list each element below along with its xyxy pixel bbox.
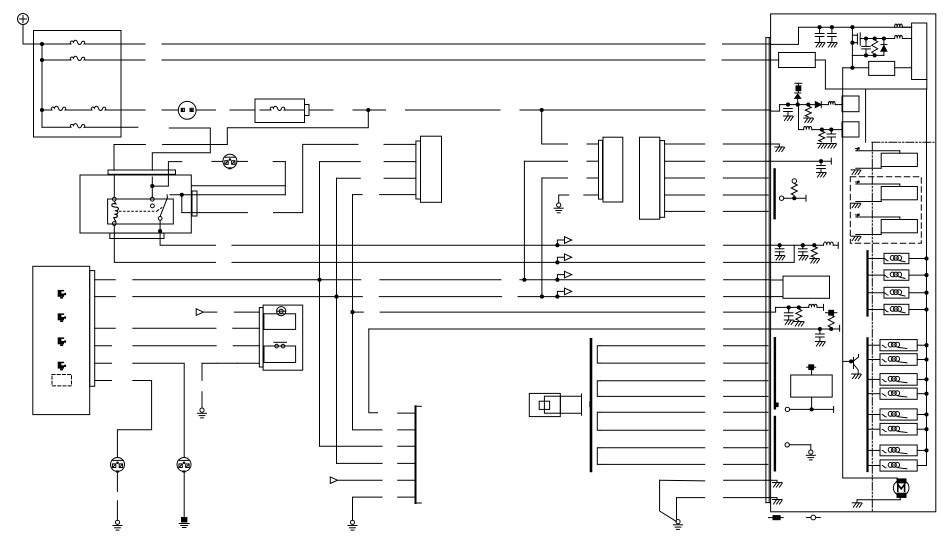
wire bus1 entry <box>771 244 780 246</box>
component M1 switch <box>275 344 279 348</box>
resistor R5 coil <box>828 101 835 104</box>
wire main rail elbow <box>843 67 853 69</box>
resistor R6 coil <box>799 129 804 131</box>
ground Gq <box>809 450 813 454</box>
relay coil L1 <box>112 201 119 222</box>
wire line3 in box <box>106 109 121 111</box>
ground C4 <box>784 115 793 117</box>
wire U3 bottom link <box>926 80 928 90</box>
comb stub 5 <box>398 479 416 481</box>
wire C1-2 in <box>384 161 416 163</box>
wire C2-1 link <box>542 110 568 144</box>
connector C1 pin bar <box>416 141 421 199</box>
wire sg2 drop <box>676 498 678 519</box>
solenoid S2 <box>869 274 884 276</box>
busD wire <box>133 345 216 347</box>
vref row <box>780 104 816 106</box>
arrow ref comb5 <box>330 477 337 484</box>
ground G2 <box>350 520 354 524</box>
node S2 <box>924 273 928 277</box>
resistor R11 coil <box>809 304 817 307</box>
wire C3-1 out <box>665 143 705 145</box>
node u8 <box>810 407 814 411</box>
wire w2 to ECU <box>724 362 768 364</box>
wire motor gnd <box>899 497 901 499</box>
wire line3 <box>121 109 145 111</box>
ground Q2 <box>852 373 861 375</box>
connector C2 body <box>603 137 623 202</box>
wire C2-2 left <box>524 160 567 162</box>
bus4 wire cont <box>379 296 501 298</box>
wire C2-4 in <box>584 194 599 196</box>
node rc2a <box>787 305 791 309</box>
node d7 <box>850 66 854 70</box>
busF stub <box>95 380 112 382</box>
bus4 wire <box>133 296 362 298</box>
relay inner body <box>108 199 174 224</box>
node v524/bus3 <box>522 278 526 282</box>
wire riser v352 <box>352 195 354 430</box>
wire C3-5 out b <box>723 210 768 212</box>
resistor R3 coil <box>895 35 903 38</box>
node relay out junction <box>180 193 184 197</box>
resistor R8 <box>811 247 817 258</box>
comb stub 1 <box>398 412 416 414</box>
connector C3 body <box>640 137 660 219</box>
wire line2 (B+) <box>121 59 145 61</box>
capacitor C5 <box>827 133 836 135</box>
pot resistor <box>791 184 797 196</box>
component M1 lower element <box>264 346 296 363</box>
resistor R12 <box>828 315 834 327</box>
ground Gs1 <box>773 482 782 484</box>
solenoid S3 <box>869 292 884 294</box>
bus5 left wire <box>234 311 259 313</box>
cpu block U6 <box>842 122 859 137</box>
wire motor feed <box>843 477 898 479</box>
solenoid T7 <box>869 449 880 451</box>
cpu block U5 <box>842 96 859 112</box>
node v352/bus5 <box>350 310 354 314</box>
component M2 case <box>529 393 560 416</box>
ground C1 <box>815 42 824 44</box>
ground G1 <box>200 408 204 412</box>
indicator bulb L1 <box>58 290 64 297</box>
cluster connector bar <box>90 271 95 387</box>
wire riser v541 <box>541 178 543 297</box>
bus6 left wire <box>133 327 216 329</box>
solenoid T2 <box>869 359 880 361</box>
connector C2 pin bar <box>599 140 603 199</box>
solenoid T8 <box>869 465 880 467</box>
u8 lower row <box>785 407 789 411</box>
solenoid left bar A <box>866 251 868 315</box>
wire line3 to ECU <box>722 109 771 111</box>
node S4 <box>924 307 928 311</box>
wire relay-line3 link <box>163 110 369 145</box>
bus4 stub <box>95 296 116 298</box>
wire w5 to ECU <box>724 411 768 413</box>
wire line3 seg4 <box>230 109 255 111</box>
relay outer case <box>80 175 191 233</box>
cluster dashed module <box>52 375 72 386</box>
bus1 to ECU <box>724 244 771 246</box>
wire line4 exit <box>121 126 138 128</box>
bus5 to ECU <box>724 311 771 313</box>
wire pair bracket 3 <box>597 412 600 430</box>
wire w2 <box>600 362 705 364</box>
solenoid T6 <box>869 428 880 430</box>
node T6 <box>924 427 928 431</box>
ignition module U4 <box>779 53 816 68</box>
wire sg2 <box>677 497 705 499</box>
wire w5 <box>600 411 705 413</box>
wire bus2 entry <box>771 245 795 262</box>
wire bus5 entry <box>771 307 776 312</box>
power node sq <box>796 86 801 91</box>
node d5 <box>864 53 868 57</box>
wire shield gnd entry <box>768 144 779 147</box>
node relay switch lower <box>158 229 162 233</box>
wire w6 to ECU <box>724 429 768 431</box>
node T1 <box>924 343 928 347</box>
ground R4 <box>804 117 813 119</box>
relay bottom connector bar <box>110 233 164 238</box>
wire line3 seg5 <box>309 109 333 111</box>
diode D1 <box>883 39 885 45</box>
node d4 <box>850 41 854 45</box>
wire C3-3 out b <box>723 177 768 179</box>
node line1 feed <box>40 42 44 46</box>
node bus2 arrow <box>555 260 559 264</box>
busE comp wire <box>237 362 259 364</box>
node relay coil feed <box>150 184 154 188</box>
wire C1-4 in <box>380 194 416 196</box>
resistor R2 coil <box>895 24 903 27</box>
wire line1 (B+) <box>121 43 145 45</box>
comb connector spine <box>415 406 417 503</box>
wire rail y89 <box>825 88 926 90</box>
wire v319 corner <box>320 445 383 447</box>
capacitor C1 <box>819 27 821 33</box>
wire line3 seg3 <box>196 109 215 111</box>
resistor R7 <box>819 131 825 142</box>
solenoid S4 <box>869 309 884 311</box>
relay coil wire in box <box>151 177 153 197</box>
arrow ref bus2 <box>557 257 564 262</box>
connector C1 body <box>421 136 442 202</box>
node line3 ECU branch <box>540 108 544 112</box>
busD wire cont <box>233 345 259 347</box>
wire line3 seg2 <box>162 109 178 111</box>
wire U8 bottom <box>811 397 813 409</box>
bus4 to ECU <box>724 296 771 298</box>
wire battery to fuse box <box>23 25 42 45</box>
bus3 to ECU <box>724 279 771 281</box>
relay coil vertical bottom <box>113 225 115 238</box>
connector circle C101 <box>223 154 237 168</box>
solenoid T5 <box>869 414 880 416</box>
ECU case <box>771 14 936 512</box>
node v2 <box>796 103 800 107</box>
busE wire <box>133 363 184 457</box>
node v1 <box>786 103 790 107</box>
stub circle <box>785 443 789 447</box>
wire pair bracket 2 <box>597 381 600 397</box>
relay output connector bar <box>192 191 197 216</box>
node line3 feed <box>40 108 44 112</box>
wire C3-3 out <box>665 177 705 179</box>
ground C2 <box>827 42 836 44</box>
wire line4 to relay coil <box>152 128 210 170</box>
node d2 <box>873 36 877 40</box>
wire riser v319 <box>319 162 321 447</box>
busE gnd branch <box>202 362 216 364</box>
capacitor C7 <box>779 245 781 249</box>
relay switch terminal A <box>150 197 154 201</box>
fuse F3a <box>42 109 52 111</box>
wire w3 <box>600 380 705 382</box>
wire line3 seg7 <box>406 109 501 111</box>
wire riser v336 <box>336 178 338 463</box>
wire conn E branch <box>273 161 285 163</box>
node d3 <box>882 36 886 40</box>
driver block U3 <box>912 23 927 80</box>
bus5 wire <box>353 311 364 313</box>
relay switch blade <box>160 198 167 216</box>
node b6a <box>829 327 833 331</box>
diode D3 <box>815 102 821 108</box>
case screw <box>811 515 816 520</box>
wire line2 cont <box>162 59 705 61</box>
ground R8 <box>810 258 819 260</box>
wire line1 to ECU <box>723 43 771 45</box>
wire w8 to ECU <box>724 463 768 465</box>
fuse F1 <box>42 43 71 45</box>
instrument cluster box <box>33 266 90 414</box>
injector driver 3 <box>855 214 857 216</box>
node line2 feed <box>40 58 44 62</box>
pot wiper row <box>784 197 806 199</box>
ECU inner bracket 3 <box>774 417 776 470</box>
bus6 stub <box>95 327 116 329</box>
ground G3 <box>115 520 119 524</box>
wire pair bracket 1 <box>597 346 600 363</box>
wire line4 in box <box>85 126 121 128</box>
ground G6 <box>676 520 680 524</box>
wire riser to conn E1 <box>284 162 286 195</box>
wire U4 out <box>815 60 825 89</box>
motor M <box>893 480 909 496</box>
wire relay out 1 <box>170 194 285 196</box>
wire C2-1 in <box>587 143 599 145</box>
wire line1 cont <box>162 43 705 45</box>
wire w4 <box>600 395 705 397</box>
node r1 <box>818 25 822 29</box>
bus3 stub <box>95 279 116 281</box>
wire rail right drop <box>865 89 867 142</box>
node v336/bus4 <box>334 295 338 299</box>
wire line3 entry <box>771 105 780 112</box>
bus2 to ECU <box>724 261 771 263</box>
arrow ref bus5 <box>196 309 203 316</box>
wire w3 to ECU <box>724 380 768 382</box>
fusible link element <box>260 109 271 111</box>
wire relay bottom b2 <box>114 239 215 263</box>
node s1 <box>819 159 823 163</box>
ground Gsh <box>775 146 784 148</box>
busE gnd riser2 <box>201 392 203 408</box>
ground R10 <box>794 321 803 323</box>
wire C3-2 out b <box>723 160 768 162</box>
node rc1a <box>778 243 782 247</box>
wire line1 in box <box>85 43 121 45</box>
wire relay bottom b1 <box>160 239 215 246</box>
fuse F4 <box>42 126 71 128</box>
wire w1 to ECU <box>724 345 768 347</box>
transistor Q2 <box>849 359 853 363</box>
wire v352 corner <box>353 429 383 431</box>
wire sens1 row <box>768 160 831 162</box>
wire w8 <box>600 463 705 465</box>
rc row2 <box>776 306 809 308</box>
comb stub 3 <box>398 445 416 447</box>
wire relay aux <box>192 185 285 187</box>
node T3 <box>924 377 928 381</box>
solenoid left bar B <box>866 338 868 471</box>
wire line1 jog <box>771 27 912 44</box>
wire C102 lower <box>116 472 118 492</box>
node v319/bus3 <box>317 278 321 282</box>
wire comb6 gnd <box>353 497 383 520</box>
component M1 upper element <box>264 314 296 330</box>
battery B+ terminal <box>18 14 29 25</box>
fuse box feed bus <box>41 44 43 127</box>
wire v336 corner <box>337 462 383 464</box>
injector driver 2 <box>855 181 857 183</box>
node T2 <box>924 357 928 361</box>
node bus3 arrow <box>555 278 559 282</box>
node v5 <box>829 128 833 132</box>
wire w1 <box>600 345 705 347</box>
component M2 inner <box>544 396 560 413</box>
relay switch terminal B <box>166 195 168 198</box>
wire C1-1 in <box>384 143 416 145</box>
component M2 shield tick <box>589 401 591 407</box>
wire C1-4 left <box>353 194 363 196</box>
wire C3-2 out <box>665 160 705 162</box>
bus6 left wire cont <box>233 327 259 329</box>
driver dashed enclosure <box>850 177 921 244</box>
wire relay NO branch <box>152 162 181 187</box>
indicator bulb L2 <box>58 313 64 320</box>
wire C3-5 out <box>665 210 705 212</box>
injector driver 1 <box>855 148 857 150</box>
wire sg2 gnd stub <box>771 497 777 499</box>
diode D2 <box>797 98 799 104</box>
shield bar <box>590 339 593 471</box>
node rc1b <box>801 243 805 247</box>
relay top connector bar <box>108 170 176 174</box>
bus2 wire <box>232 261 705 263</box>
indicator bulb L3 <box>58 337 64 344</box>
node rc1c <box>812 243 816 247</box>
busE gnd riser <box>201 363 203 380</box>
wire C3-4 out b <box>723 194 768 196</box>
capacitor C6 <box>820 161 822 165</box>
power node sq3 <box>809 365 814 370</box>
wire C1-2 left <box>320 161 361 163</box>
wire vref drop <box>797 104 800 106</box>
ground Gm <box>852 502 861 504</box>
node d1 <box>864 36 868 40</box>
wire C2-4 stub <box>559 195 569 203</box>
capacitor C8 <box>802 245 804 249</box>
connector C103 <box>177 458 191 472</box>
arrow ref bus4 <box>557 291 564 296</box>
solenoid T1 <box>869 344 880 346</box>
rc row1 <box>780 244 824 246</box>
wire sg1 to ECU <box>724 479 771 481</box>
wire riser v524 <box>523 161 525 280</box>
wire U4 in <box>771 59 779 61</box>
wire C101 left <box>212 160 223 162</box>
wire bus4 entry <box>771 296 783 298</box>
bus4 wire cont2 <box>518 296 705 298</box>
pot wiper circle <box>779 196 783 200</box>
busD stub <box>95 345 112 347</box>
component M1 connector bar <box>259 308 263 367</box>
wire bus3 entry <box>771 279 783 281</box>
wire relay out drop <box>181 195 183 213</box>
bus6 wire <box>369 328 705 330</box>
node v541/bus4 <box>540 295 544 299</box>
relay coil vertical top <box>113 174 115 197</box>
wire C2-3 left <box>542 177 568 179</box>
node row lower <box>852 54 884 56</box>
component M1 case <box>263 305 303 370</box>
node T7 <box>924 448 928 452</box>
capacitor C10 <box>819 329 821 334</box>
ECU inner bracket 2 <box>774 338 776 408</box>
wire C3-1 out b <box>723 143 768 145</box>
capacitor C3 <box>865 39 867 47</box>
wire w6 <box>600 429 705 431</box>
node T4 <box>924 392 928 396</box>
node r3 <box>850 25 854 29</box>
capacitor C4 <box>784 108 793 110</box>
wire C2-3 in <box>587 177 599 179</box>
node line3/relay junction <box>366 108 370 112</box>
wire sg1 <box>660 479 705 482</box>
bus3 wire cont <box>380 279 501 281</box>
resistor R4 <box>805 106 811 117</box>
regulator U2 <box>869 61 895 75</box>
ground R7 <box>817 143 826 145</box>
wire relay top to line3 <box>114 145 145 171</box>
capacitor C2 <box>831 27 833 33</box>
busE stub <box>95 362 112 364</box>
node d6 <box>873 53 877 57</box>
node pot <box>792 196 796 200</box>
relay switch lower wire <box>159 220 161 238</box>
module U7 <box>783 276 830 298</box>
component M2 core <box>539 401 549 409</box>
module U8 <box>791 375 833 397</box>
connector C3 pin bar <box>660 141 665 218</box>
wire w7 to ECU <box>724 447 768 449</box>
connector C102 <box>111 458 125 472</box>
